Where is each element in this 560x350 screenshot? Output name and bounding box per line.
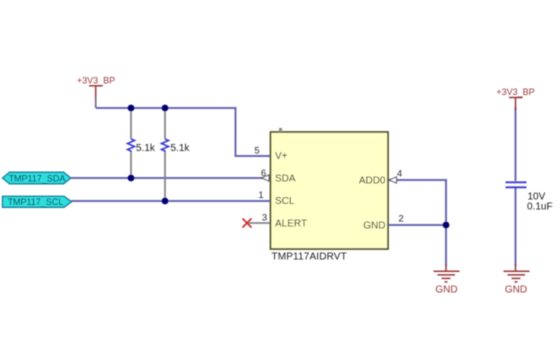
- svg-text:GND: GND: [363, 221, 385, 232]
- svg-text:ALERT: ALERT: [275, 219, 307, 230]
- svg-text:1: 1: [258, 190, 263, 201]
- svg-text:5.1k: 5.1k: [171, 143, 191, 154]
- svg-text:GND: GND: [435, 285, 457, 296]
- svg-text:4: 4: [397, 169, 402, 180]
- svg-text:TMP117AIDRVT: TMP117AIDRVT: [272, 252, 347, 263]
- svg-text:5: 5: [254, 146, 259, 157]
- svg-text:2: 2: [398, 214, 403, 225]
- svg-text:TMP117_SCL: TMP117_SCL: [8, 197, 64, 207]
- svg-text:+3V3_BP: +3V3_BP: [496, 87, 534, 97]
- svg-text:TMP117_SDA: TMP117_SDA: [9, 173, 66, 183]
- svg-text:5.1k: 5.1k: [136, 143, 156, 154]
- svg-text:3: 3: [262, 213, 267, 224]
- svg-text:V+: V+: [275, 151, 288, 162]
- svg-text:+3V3_BP: +3V3_BP: [77, 76, 115, 86]
- svg-text:SCL: SCL: [275, 196, 295, 207]
- svg-text:SDA: SDA: [275, 174, 296, 185]
- svg-text:ADD0: ADD0: [359, 176, 386, 187]
- svg-text:GND: GND: [505, 285, 527, 296]
- svg-text:0.1uF: 0.1uF: [527, 202, 553, 213]
